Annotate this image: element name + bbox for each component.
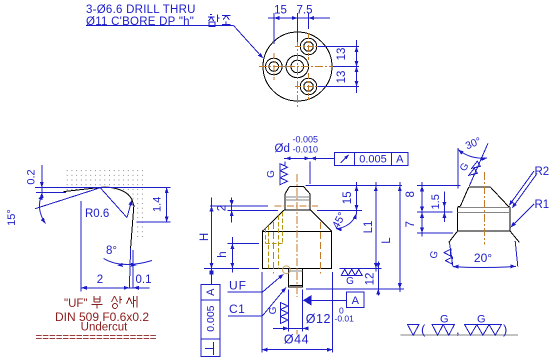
svg-text:15: 15 bbox=[274, 5, 287, 17]
dim 12 (stem length) bbox=[377, 262, 379, 296]
svg-text:12: 12 bbox=[365, 273, 377, 286]
shoulder + 45 deg cone bbox=[284, 209, 311, 211]
runout feature control frame bbox=[335, 153, 409, 166]
svg-text:0.1: 0.1 bbox=[136, 274, 152, 286]
svg-text:-0.010: -0.010 bbox=[293, 144, 319, 154]
dimension 15 / 7.5 top bbox=[268, 17, 330, 19]
svg-text:"UF": "UF" bbox=[64, 298, 88, 310]
dims 8 / 7 / 1.5 bbox=[417, 185, 461, 187]
svg-text:Ø11 C'BORE DP "h": Ø11 C'BORE DP "h" bbox=[86, 16, 194, 28]
svg-text:13: 13 bbox=[336, 48, 348, 61]
extension lines front bbox=[306, 185, 403, 187]
datum A bbox=[347, 292, 364, 308]
dim 1.4 bbox=[137, 221, 171, 223]
svg-text:G: G bbox=[440, 314, 449, 326]
dim 2 bbox=[231, 198, 233, 223]
svg-text:A: A bbox=[352, 295, 360, 307]
svg-text:R2: R2 bbox=[535, 166, 550, 178]
svg-text:15: 15 bbox=[342, 191, 354, 204]
dim O12 with tol bbox=[288, 290, 290, 332]
svg-text:A: A bbox=[396, 154, 404, 166]
finish mark on ext line (inverted) bbox=[341, 269, 348, 275]
note underline and leader arrow bbox=[86, 25, 234, 27]
svg-text:8: 8 bbox=[405, 191, 417, 197]
svg-text:(: ( bbox=[421, 322, 426, 337]
groove gray lines bbox=[458, 207, 510, 209]
finish G stem bbox=[281, 303, 289, 310]
svg-text:0.005: 0.005 bbox=[359, 154, 387, 166]
dim h bbox=[231, 237, 233, 273]
bolt hole left bbox=[266, 58, 283, 75]
body rectangle bbox=[262, 231, 331, 268]
dim H bbox=[211, 198, 213, 285]
thread relief gray lines bbox=[285, 196, 310, 198]
svg-text:G: G bbox=[266, 170, 277, 178]
dim 45 deg bbox=[336, 214, 357, 229]
center boss circles bbox=[286, 55, 308, 77]
dim O44 bbox=[261, 272, 263, 353]
svg-text:0.005: 0.005 bbox=[205, 305, 217, 331]
svg-text:L1: L1 bbox=[363, 221, 375, 234]
center lines bbox=[296, 174, 298, 297]
svg-text:1.4: 1.4 bbox=[152, 197, 164, 212]
svg-text:R1: R1 bbox=[535, 199, 550, 211]
dim L bbox=[399, 182, 401, 292]
svg-text:7.5: 7.5 bbox=[297, 5, 313, 17]
svg-text:G: G bbox=[346, 276, 354, 287]
svg-text:): ) bbox=[503, 322, 507, 337]
dim 0.2 bbox=[41, 165, 43, 200]
svg-text:13: 13 bbox=[336, 71, 348, 84]
part outline: top pilot bbox=[285, 187, 310, 211]
general surface finish note bbox=[401, 334, 519, 336]
center line bbox=[483, 172, 485, 245]
dim L1 bbox=[375, 182, 377, 272]
bolt hole top-right bbox=[300, 38, 317, 55]
undercut profile bbox=[64, 187, 102, 191]
svg-text:G: G bbox=[477, 314, 486, 326]
dim 15 bbox=[356, 182, 358, 215]
dims 2 and 0.1 bottom bbox=[80, 201, 82, 292]
svg-text:-0.01: -0.01 bbox=[335, 314, 355, 324]
svg-text:h: h bbox=[217, 251, 229, 257]
svg-text:Ø12: Ø12 bbox=[306, 312, 331, 326]
svg-text:2: 2 bbox=[97, 274, 103, 286]
undercut zone circle bbox=[283, 266, 291, 274]
svg-text:Ø44: Ø44 bbox=[284, 333, 309, 347]
svg-text:-0.005: -0.005 bbox=[293, 135, 319, 145]
stem bbox=[289, 268, 303, 287]
svg-text:7: 7 bbox=[405, 221, 417, 227]
finish G on 30deg slope bbox=[472, 161, 481, 168]
svg-text:2: 2 bbox=[217, 205, 229, 211]
dim 30 deg bbox=[457, 148, 459, 189]
svg-text:15°: 15° bbox=[6, 209, 18, 226]
center lines bbox=[297, 25, 299, 108]
svg-text:8°: 8° bbox=[106, 245, 117, 257]
svg-text:Ød: Ød bbox=[275, 143, 290, 155]
svg-text:A: A bbox=[205, 288, 217, 296]
svg-text:L: L bbox=[381, 237, 393, 244]
reference line top bbox=[35, 187, 171, 189]
hidden hole lines bbox=[264, 228, 266, 243]
svg-text:1.5: 1.5 bbox=[430, 194, 442, 209]
dim 15 deg bbox=[35, 187, 102, 209]
svg-text:3-Ø6.6 DRILL THRU: 3-Ø6.6 DRILL THRU bbox=[86, 4, 196, 16]
svg-text:,: , bbox=[456, 322, 460, 337]
finish G on 20deg flare bbox=[444, 249, 451, 256]
perpendicularity feature control frame (rotated) bbox=[201, 285, 220, 357]
svg-text:C1: C1 bbox=[229, 302, 245, 316]
top view outer circle bbox=[263, 32, 332, 101]
svg-text:20°: 20° bbox=[474, 251, 492, 265]
svg-text:0.2: 0.2 bbox=[26, 169, 38, 184]
stipple material hatch bbox=[63, 170, 146, 241]
bolt hole bottom-right bbox=[300, 78, 317, 95]
dim 20 deg bbox=[449, 242, 453, 267]
finish G (pilot dia) bbox=[280, 164, 288, 171]
svg-text:UF: UF bbox=[229, 278, 247, 292]
svg-text:R0.6: R0.6 bbox=[85, 208, 109, 220]
svg-text:==================: ================== bbox=[36, 332, 157, 344]
dimension 13/13 right bbox=[318, 46, 359, 48]
tip detail outline bbox=[449, 187, 520, 243]
svg-text:H: H bbox=[199, 233, 211, 241]
bolt circle hidden centerlines bbox=[272, 222, 274, 274]
korean 참조 bbox=[208, 15, 215, 22]
